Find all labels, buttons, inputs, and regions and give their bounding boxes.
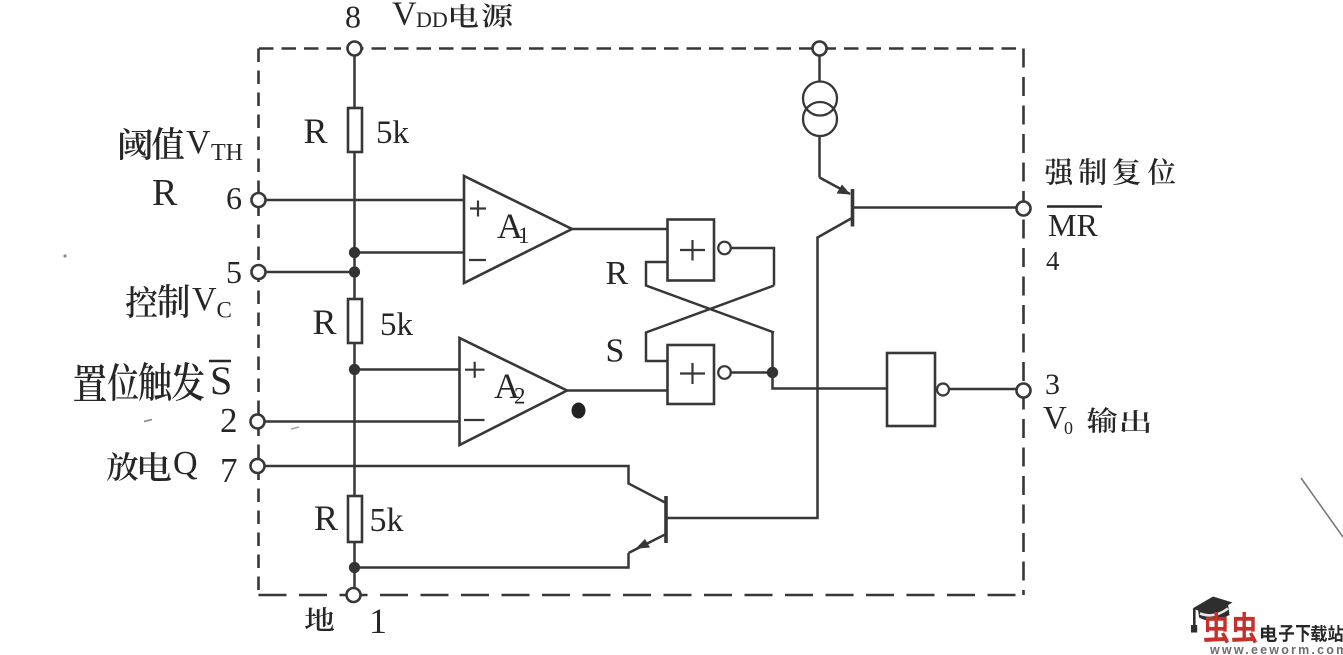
pin 2 terminal (251, 415, 265, 429)
wire: inverter output to pin 3 (949, 388, 1017, 391)
logo 电子下载站 text (1261, 625, 1343, 642)
A2 + input sign (465, 362, 485, 378)
wire: R gate output to cross-coupling (731, 248, 774, 286)
forced reset label 强制复位 (1045, 158, 1175, 185)
wire: latch output down and right to inverter (773, 373, 888, 389)
svg-text:DD: DD (416, 7, 448, 32)
resistor R3 5k (bottom) (348, 496, 362, 542)
wire: current source to Q1 emitter (818, 136, 821, 178)
wire: R3 bottom to ground pin 1 (353, 542, 356, 589)
wire: pin 5 to divider node (265, 271, 355, 274)
pin 8 terminal (348, 42, 362, 56)
VDD chinese label 电源 (451, 3, 512, 27)
resistor R2 5k (middle) (348, 299, 362, 343)
transistor Q2 bar (discharge) (664, 496, 668, 543)
svg-text:S: S (210, 358, 232, 403)
wire: Q1 base to pin 4 (854, 206, 1017, 209)
svg-text:2: 2 (514, 384, 526, 409)
transistor Q1 bar (MR) (851, 189, 855, 227)
svg-text:Q: Q (173, 445, 198, 482)
output inverter buffer box (887, 353, 935, 426)
discharge label 放电 (107, 452, 171, 481)
S gate output bubble (718, 366, 731, 379)
svg-text:V: V (186, 124, 211, 161)
scan tick below A2 (291, 427, 299, 429)
pin 7 terminal (251, 459, 265, 473)
IC boundary dashed box: top border (259, 47, 1024, 50)
svg-text:7: 7 (220, 451, 238, 490)
svg-text:www.eeworm.com: www.eeworm.com (1209, 643, 1343, 655)
scratch artifact line (bottom right) (1301, 478, 1343, 537)
pin 4 MR terminal (1017, 202, 1031, 216)
RS latch R gate box (668, 220, 715, 281)
svg-text:8: 8 (345, 0, 361, 35)
node: junction dot pin5/divider (349, 266, 360, 277)
logo 虫虫 red text (1204, 612, 1257, 643)
svg-text:R: R (606, 255, 629, 292)
wire: cross-coupling diagonal R-out to S-in (646, 286, 774, 362)
svg-text:V: V (392, 0, 417, 33)
VDD node terminal (top right) (813, 42, 827, 56)
svg-text:1: 1 (518, 223, 530, 248)
svg-text:5k: 5k (380, 307, 414, 343)
pin 1 ground terminal (347, 588, 361, 602)
wire: divider node to A2 + input (355, 368, 460, 371)
A1 + input sign (470, 201, 486, 217)
resistor R1 5k (top) (348, 108, 362, 152)
Q1 emitter diagonal with arrow into bar (820, 178, 851, 195)
pin 5 terminal (252, 265, 266, 279)
svg-text:R: R (314, 498, 338, 538)
svg-text:2: 2 (220, 401, 238, 440)
A1 - input sign (469, 259, 486, 261)
wire: pin 2 to A2 - input (264, 420, 460, 423)
R gate output bubble (718, 242, 731, 255)
wire: A1 output to R latch input (572, 228, 668, 231)
node: junction dot ground/emitter (349, 562, 360, 573)
wire: divider node to A1 - input (355, 251, 465, 254)
RS latch S gate box (668, 345, 715, 404)
svg-text:R: R (152, 172, 178, 214)
IC boundary: bottom border (259, 594, 1024, 597)
op-amp comparator A2 (460, 338, 568, 445)
S gate + sign (680, 363, 705, 384)
svg-text:5: 5 (226, 254, 242, 290)
A2 - input sign (464, 419, 485, 421)
wire: pin8 to R1 top (353, 55, 356, 108)
current source symbol (two circles) (803, 82, 837, 116)
wire: cross-coupling diagonal S-out to R-in (646, 262, 774, 333)
wire: top border node down to current source (818, 55, 821, 82)
svg-text:TH: TH (211, 140, 243, 166)
node: junction dot divider/A1- (349, 247, 360, 258)
wire: R2 bottom to R3 top (353, 343, 356, 496)
svg-text:5k: 5k (370, 502, 404, 539)
pin 6 terminal (252, 193, 266, 207)
svg-text:0: 0 (1064, 418, 1073, 438)
wire: Q2 emitter down and left to ground node (355, 553, 629, 568)
IC boundary: right border (1022, 49, 1025, 596)
set trigger label 置位触发 (74, 362, 204, 401)
svg-text:1: 1 (369, 601, 387, 641)
inverter output bubble (937, 384, 949, 396)
svg-text:MR: MR (1048, 207, 1098, 243)
svg-text:5k: 5k (376, 115, 410, 151)
wire: S gate output to junction and up to cross (731, 333, 774, 373)
wire: Q1 collector diagonal and down to discharge base (666, 218, 852, 518)
op-amp comparator A1 (464, 176, 572, 283)
svg-text:S: S (606, 333, 625, 370)
pin 3 output terminal (1017, 384, 1031, 398)
control label 控制 (126, 284, 189, 318)
wire: pin 6 to A1 + input (265, 199, 464, 202)
threshold label 阈值 (120, 127, 184, 160)
ink blob artifact near A2 output (572, 403, 586, 419)
svg-text:6: 6 (226, 180, 242, 216)
svg-text:3: 3 (1045, 368, 1060, 401)
wire: A2 output to S latch input (567, 389, 668, 392)
ground label 地 (305, 607, 334, 631)
wire: R1 bottom to R2 top (divider mid) (353, 152, 356, 299)
logo graduation cap (1191, 597, 1233, 633)
scan speck left margin (63, 254, 66, 257)
R gate + sign (680, 240, 705, 261)
svg-text:V: V (192, 281, 217, 318)
svg-text:C: C (217, 298, 232, 323)
svg-text:R: R (313, 302, 337, 342)
Q2 emitter diagonal with arrow (629, 534, 667, 553)
wire: pin 7 to Q2 collector (264, 466, 666, 503)
node: latch output junction dot (767, 367, 778, 378)
svg-text:R: R (304, 111, 328, 151)
IC boundary: left border (257, 49, 260, 596)
scan tick near pin 2 label (144, 420, 152, 422)
node: junction dot divider/A2+ (349, 364, 360, 375)
svg-text:4: 4 (1046, 246, 1060, 276)
output label 输出 (1087, 407, 1150, 433)
